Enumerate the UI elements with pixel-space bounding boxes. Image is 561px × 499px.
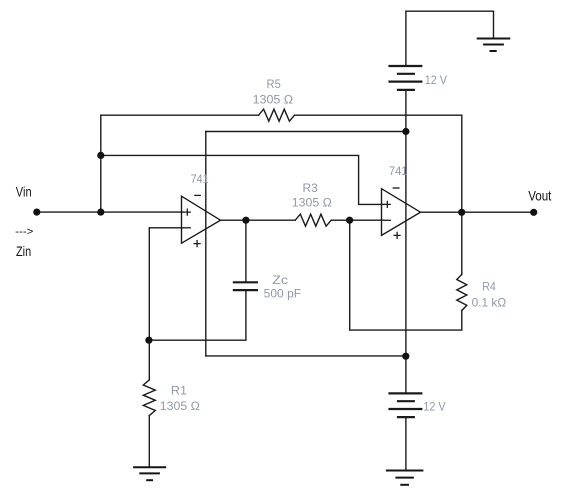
svg-text:741: 741 <box>191 172 209 186</box>
svg-text:12 V: 12 V <box>425 73 447 87</box>
svg-text:R3: R3 <box>303 181 319 195</box>
svg-text:Vout: Vout <box>528 188 551 203</box>
svg-text:12 V: 12 V <box>423 400 445 414</box>
svg-text:--->: ---> <box>15 226 33 238</box>
svg-text:Zc: Zc <box>272 273 288 287</box>
svg-text:0.1 kΩ: 0.1 kΩ <box>472 296 507 310</box>
svg-text:Vin: Vin <box>16 185 32 200</box>
svg-text:R5: R5 <box>267 77 282 91</box>
svg-text:1305 Ω: 1305 Ω <box>292 196 332 210</box>
svg-text:R1: R1 <box>171 383 187 397</box>
svg-text:1305 Ω: 1305 Ω <box>253 92 294 106</box>
svg-text:741: 741 <box>389 164 408 178</box>
svg-text:R4: R4 <box>482 280 496 294</box>
svg-text:500 pF: 500 pF <box>264 287 301 301</box>
svg-text:Zin: Zin <box>16 244 31 259</box>
svg-text:1305 Ω: 1305 Ω <box>160 399 200 413</box>
